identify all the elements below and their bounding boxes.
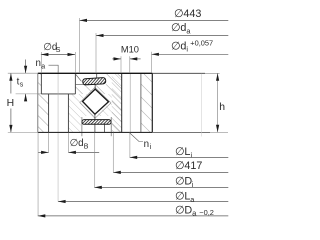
svg-text:∅L: ∅L xyxy=(175,191,190,203)
svg-text:n: n xyxy=(36,58,41,69)
svg-text:+0,057: +0,057 xyxy=(190,39,213,48)
svg-text:a: a xyxy=(186,26,191,35)
svg-text:h: h xyxy=(219,102,225,113)
svg-text:∅D: ∅D xyxy=(175,204,192,216)
svg-text:H: H xyxy=(7,98,15,109)
svg-text:∅L: ∅L xyxy=(175,146,190,158)
svg-text:M10: M10 xyxy=(121,45,139,55)
svg-text:∅d: ∅d xyxy=(171,40,186,52)
svg-text:i: i xyxy=(150,144,152,151)
svg-text:−0,2: −0,2 xyxy=(199,208,214,217)
svg-text:∅443: ∅443 xyxy=(174,8,201,20)
svg-text:n: n xyxy=(144,139,149,150)
svg-text:S: S xyxy=(56,47,61,54)
svg-text:∅d: ∅d xyxy=(70,138,84,149)
svg-text:s: s xyxy=(20,82,24,89)
svg-text:i: i xyxy=(191,150,193,159)
svg-text:B: B xyxy=(84,143,89,150)
svg-text:∅417: ∅417 xyxy=(175,160,202,172)
svg-text:a: a xyxy=(41,63,45,70)
svg-text:a: a xyxy=(190,195,195,204)
svg-text:∅D: ∅D xyxy=(175,176,192,188)
svg-text:∅d: ∅d xyxy=(171,22,186,34)
svg-text:i: i xyxy=(186,45,188,54)
